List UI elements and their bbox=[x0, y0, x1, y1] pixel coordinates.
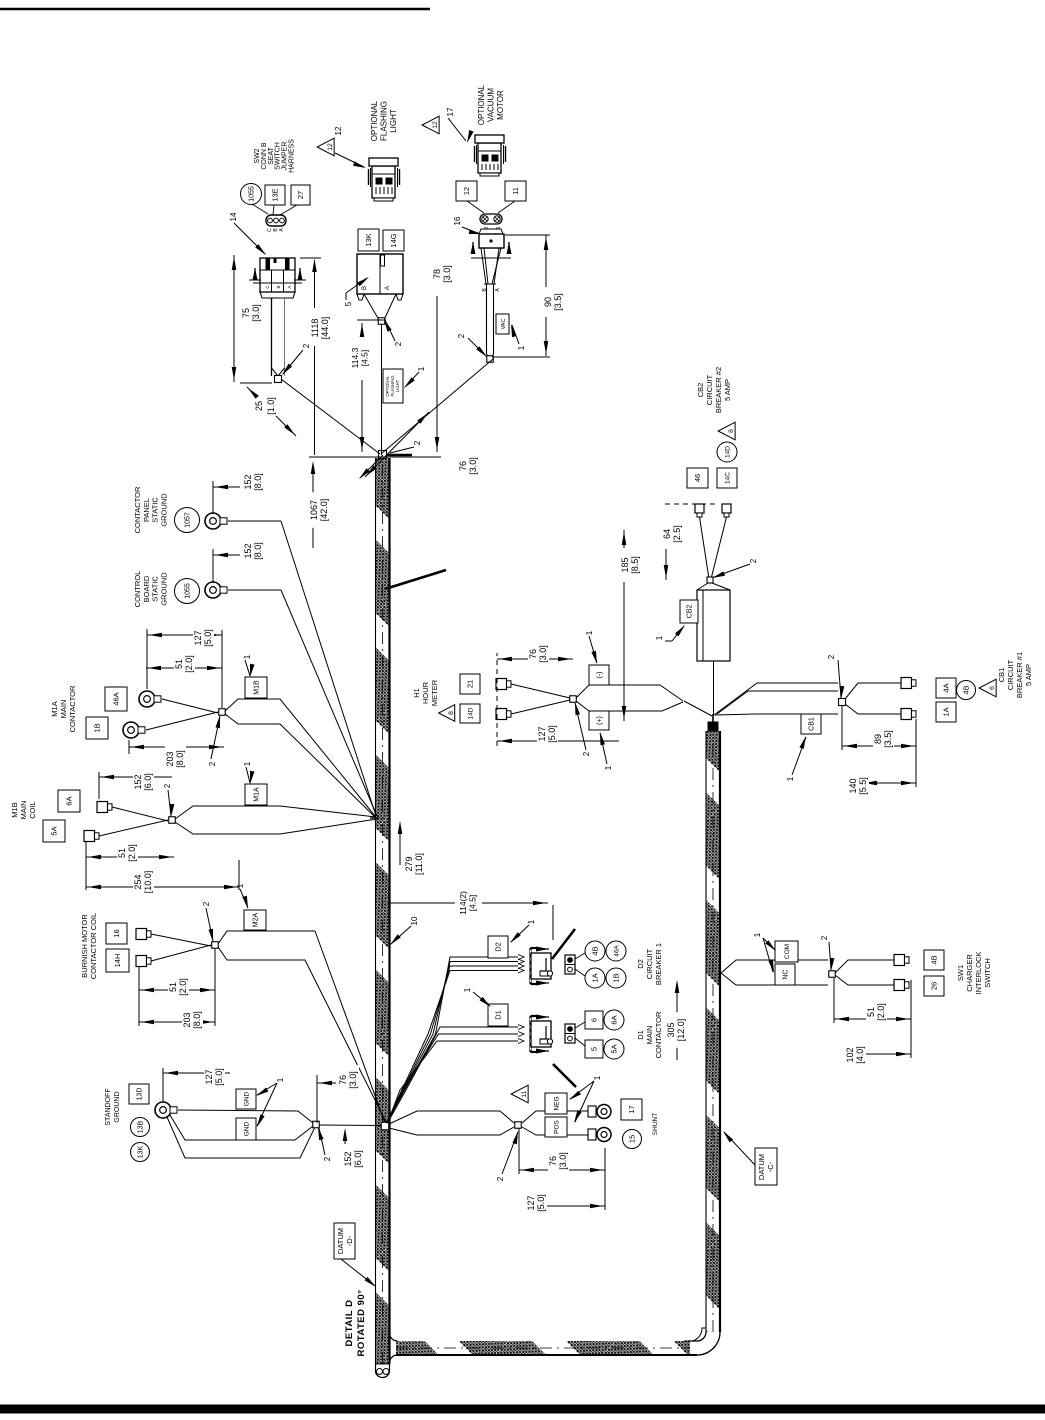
svg-text:VAC: VAC bbox=[501, 319, 507, 330]
svg-text:127: 127 bbox=[193, 630, 203, 645]
svg-text:NEG: NEG bbox=[553, 1096, 560, 1110]
extension lines M1B dims bbox=[85, 842, 87, 890]
box 1B bbox=[86, 717, 108, 739]
svg-text:CB1: CB1 bbox=[997, 668, 1006, 683]
svg-text:MAIN: MAIN bbox=[19, 801, 28, 820]
dimension 1067 [42.0] bbox=[312, 464, 314, 548]
svg-text:14C: 14C bbox=[724, 472, 731, 484]
svg-text:[12.0]: [12.0] bbox=[676, 1019, 686, 1042]
svg-text:POS: POS bbox=[553, 1119, 560, 1133]
svg-text:[3.0]: [3.0] bbox=[348, 1071, 358, 1089]
svg-text:1B: 1B bbox=[612, 973, 621, 982]
faston CB1-2 bbox=[901, 709, 912, 720]
svg-text:BOARD: BOARD bbox=[142, 575, 151, 602]
svg-text:8: 8 bbox=[728, 429, 735, 433]
wire ground node to trunk node B bbox=[319, 1124, 381, 1127]
wire contactor ground bbox=[228, 520, 281, 522]
svg-text:1: 1 bbox=[527, 919, 536, 924]
svg-text:(-): (-) bbox=[597, 672, 604, 679]
node standoff ground bbox=[313, 1121, 320, 1128]
svg-text:STATIC: STATIC bbox=[151, 497, 160, 523]
svg-text:5A: 5A bbox=[610, 1044, 619, 1053]
svg-text:CONTACTOR: CONTACTOR bbox=[133, 486, 142, 533]
svg-text:15: 15 bbox=[628, 1135, 637, 1143]
box 14G bbox=[383, 230, 404, 251]
box M2A inline bbox=[244, 910, 266, 930]
node burnish bbox=[212, 942, 219, 949]
svg-text:LIGHT: LIGHT bbox=[395, 379, 400, 392]
svg-text:[2.5]: [2.5] bbox=[672, 525, 682, 543]
dimension 127 [5.0] (hour meter) bbox=[497, 740, 619, 742]
dimension 140 [5.5] (CB1) bbox=[862, 782, 916, 784]
wires M1A crossover bbox=[162, 699, 218, 713]
dimension 152 [6.0] (M1B) bbox=[99, 776, 172, 778]
page frame lines bbox=[0, 8, 430, 11]
svg-text:89: 89 bbox=[873, 734, 883, 744]
wires M1A to trunk bbox=[225, 699, 375, 816]
housing corner tabs bbox=[357, 294, 364, 300]
node hour meter bbox=[570, 696, 577, 703]
box 21 bbox=[460, 674, 480, 694]
box 11 bbox=[505, 181, 526, 201]
svg-text:16: 16 bbox=[112, 929, 121, 937]
svg-text:DATUM: DATUM bbox=[757, 1154, 766, 1180]
svg-text:1055: 1055 bbox=[185, 583, 192, 599]
svg-text:2: 2 bbox=[208, 761, 217, 766]
svg-text:D2: D2 bbox=[636, 959, 645, 969]
dimension 76 [3.0] (shunt) bbox=[519, 1169, 605, 1171]
svg-text:CIRCUIT: CIRCUIT bbox=[645, 948, 654, 979]
box 13D bbox=[129, 1084, 149, 1104]
svg-text:78: 78 bbox=[432, 269, 442, 279]
dimension 64 [2.5] bbox=[665, 530, 667, 580]
svg-text:25: 25 bbox=[254, 401, 264, 411]
svg-text:STATIC: STATIC bbox=[151, 576, 160, 602]
svg-text:GND: GND bbox=[243, 1091, 250, 1106]
dimension 76 [3.0] diagonal bbox=[365, 412, 429, 477]
svg-text:[4.5]: [4.5] bbox=[360, 350, 370, 367]
svg-text:1067: 1067 bbox=[309, 500, 319, 520]
svg-text:16: 16 bbox=[453, 216, 462, 225]
box 12 bbox=[456, 181, 477, 201]
svg-text:90: 90 bbox=[543, 297, 553, 307]
connector vacuum 2-pin plug bbox=[480, 214, 502, 224]
extension lines CB1 dims bbox=[841, 706, 843, 750]
dimension 76 [3.0] (standoff) bbox=[316, 1075, 318, 1123]
svg-text:5A: 5A bbox=[50, 826, 59, 835]
dimension 152 [6.0] (standoff) bbox=[344, 1130, 346, 1148]
svg-text:[44.0]: [44.0] bbox=[320, 317, 330, 340]
box 13E bbox=[265, 185, 285, 205]
svg-text:D1: D1 bbox=[494, 1010, 503, 1020]
svg-text:75: 75 bbox=[241, 308, 251, 318]
box D1 inline bbox=[488, 1004, 508, 1026]
svg-text:51: 51 bbox=[117, 848, 127, 858]
connector D1 (contactor plug) bbox=[531, 1015, 553, 1054]
triangle note 12 (flashing light) bbox=[317, 138, 334, 156]
dimension 185 [8.5] bbox=[623, 582, 625, 721]
harness centerline bbox=[382, 458, 384, 1364]
svg-text:A: A bbox=[279, 228, 285, 232]
svg-text:[6.0]: [6.0] bbox=[143, 773, 153, 791]
svg-text:203: 203 bbox=[165, 751, 175, 766]
box NEG inline bbox=[545, 1093, 567, 1114]
pins taper bbox=[481, 248, 486, 284]
svg-text:[8.0]: [8.0] bbox=[175, 750, 185, 768]
svg-text:13K: 13K bbox=[138, 1145, 145, 1158]
leader 12 to plug bbox=[467, 201, 484, 213]
leader DATUM -D- to harness bbox=[341, 1259, 375, 1286]
svg-text:6: 6 bbox=[989, 686, 996, 690]
svg-text:1A: 1A bbox=[591, 973, 600, 982]
svg-text:1: 1 bbox=[585, 630, 594, 635]
svg-text:2: 2 bbox=[323, 1156, 332, 1161]
svg-text:[1.0]: [1.0] bbox=[266, 397, 276, 415]
dimension 51 [2.0] (interlock) bbox=[834, 1018, 911, 1020]
svg-text:PANEL: PANEL bbox=[142, 498, 151, 522]
dashed extension CB2 posts bbox=[665, 503, 718, 505]
connector vacuum main housing bbox=[479, 234, 504, 248]
dimension 75 [3.0] bbox=[233, 255, 235, 382]
faston M1B-1 bbox=[97, 802, 108, 813]
connector SW2 4-pin receptacle bbox=[266, 215, 286, 226]
svg-text:-D-: -D- bbox=[345, 1235, 354, 1246]
svg-text:27: 27 bbox=[296, 191, 305, 199]
box 14H bbox=[106, 949, 129, 972]
box CB1 inline bbox=[801, 714, 821, 734]
dimension 76 [3.0] (hour meter) bbox=[497, 658, 573, 660]
dimension 1118 [44.0] bbox=[314, 346, 316, 455]
svg-text:[10.0]: [10.0] bbox=[143, 871, 153, 894]
box 16 bbox=[106, 923, 127, 944]
connector D2 (breaker plug) bbox=[0, 1048, 1, 1050]
svg-text:1: 1 bbox=[243, 761, 252, 766]
faston M1B-2 bbox=[84, 831, 95, 842]
svg-text:11: 11 bbox=[521, 1090, 528, 1097]
svg-text:114(2): 114(2) bbox=[458, 891, 468, 915]
svg-text:152: 152 bbox=[243, 474, 253, 489]
leaders cells to balloons bbox=[575, 953, 585, 959]
box 5 bbox=[585, 1040, 603, 1058]
svg-text:13K: 13K bbox=[364, 233, 373, 246]
dimension 127 [5.0] (standoff) bbox=[163, 1072, 230, 1074]
node shunt bbox=[515, 1122, 522, 1129]
svg-text:1: 1 bbox=[753, 932, 762, 937]
svg-text:17: 17 bbox=[627, 1105, 636, 1113]
triangle note 8 (hour meter) bbox=[439, 705, 455, 722]
svg-text:CIRCUIT: CIRCUIT bbox=[1006, 659, 1015, 690]
faston interlock-1 bbox=[894, 955, 905, 966]
wires M1B to trunk bbox=[175, 806, 376, 819]
faston hourmeter-2 bbox=[496, 709, 507, 720]
wire CB2 to junction bbox=[713, 661, 715, 716]
svg-text:1: 1 bbox=[655, 635, 664, 640]
svg-text:152: 152 bbox=[133, 774, 143, 789]
leader DATUM -C- to trunk2 bbox=[724, 1132, 755, 1165]
svg-text:26: 26 bbox=[930, 982, 939, 990]
CB2 breaker body bbox=[697, 583, 708, 590]
shunt wires after node bbox=[522, 1111, 588, 1123]
svg-text:64: 64 bbox=[662, 529, 672, 539]
dashed extension line hour meter bbox=[496, 653, 498, 746]
dimension 279 [11.0] bbox=[399, 823, 401, 865]
svg-text:14D: 14D bbox=[467, 707, 474, 719]
svg-text:6: 6 bbox=[590, 1018, 599, 1022]
trunk 2 end cap (black) bbox=[708, 722, 718, 731]
svg-text:2: 2 bbox=[413, 440, 422, 445]
svg-text:203: 203 bbox=[182, 1012, 192, 1027]
ground wires from ring bbox=[178, 1110, 313, 1123]
svg-text:2: 2 bbox=[163, 783, 172, 788]
box 27 bbox=[291, 185, 310, 205]
box 4B (interlock) bbox=[924, 950, 944, 970]
svg-text:SW1: SW1 bbox=[956, 965, 965, 981]
svg-text:B: B bbox=[482, 288, 488, 292]
svg-text:2: 2 bbox=[202, 901, 211, 906]
svg-text:GROUND: GROUND bbox=[114, 1091, 121, 1122]
svg-text:51: 51 bbox=[866, 1007, 876, 1017]
svg-text:BREAKER #1: BREAKER #1 bbox=[1015, 652, 1024, 698]
connector flashing light 2-cav housing bbox=[357, 254, 403, 294]
dimension 203 [8.0] (burnish) bbox=[139, 1021, 215, 1023]
box 1A (CB1) bbox=[936, 702, 956, 722]
svg-text:1: 1 bbox=[276, 1077, 285, 1082]
svg-text:A: A bbox=[287, 285, 292, 288]
dimension 51 [2.0] (burnish) bbox=[139, 989, 215, 991]
wire pair SW2 bbox=[271, 298, 273, 376]
balloon 6A bbox=[604, 1010, 624, 1030]
box 26 bbox=[924, 976, 944, 996]
dimension 25 [1.0] diagonal bbox=[276, 416, 296, 436]
svg-text:4A: 4A bbox=[942, 683, 951, 692]
svg-text:51: 51 bbox=[174, 659, 184, 669]
box VAC inline bbox=[496, 314, 509, 334]
inline label box OPTIONAL FLASHING LIGHT bbox=[383, 369, 403, 403]
svg-text:2: 2 bbox=[496, 1176, 505, 1181]
svg-text:[5.0]: [5.0] bbox=[536, 1194, 546, 1212]
svg-text:1: 1 bbox=[463, 987, 472, 992]
wires charger interlock from trunk2 bbox=[721, 960, 775, 973]
D1 wire bundle bbox=[388, 1041, 519, 1123]
balloon 15 bbox=[623, 1130, 642, 1149]
connector SW2 mating face bbox=[260, 292, 295, 298]
svg-text:[5.0]: [5.0] bbox=[203, 629, 213, 647]
svg-text:1057: 1057 bbox=[185, 512, 192, 528]
svg-text:76: 76 bbox=[338, 1075, 348, 1085]
svg-text:D2: D2 bbox=[494, 942, 503, 952]
svg-text:[3.0]: [3.0] bbox=[468, 457, 478, 475]
svg-text:[8.5]: [8.5] bbox=[630, 556, 640, 574]
wire SW2 to node A bbox=[281, 379, 380, 454]
box GND 2 bbox=[236, 1118, 256, 1140]
box M1A inline bbox=[245, 784, 267, 805]
svg-text:127: 127 bbox=[204, 1069, 214, 1084]
ring terminal contactor panel ground bbox=[205, 513, 221, 529]
box 5A bbox=[43, 820, 65, 842]
svg-text:MAIN: MAIN bbox=[645, 1026, 654, 1045]
svg-text:-C-: -C- bbox=[766, 1161, 775, 1172]
box 6 bbox=[585, 1011, 603, 1029]
tick at connector seal bbox=[253, 282, 302, 284]
main harness trunk (hatched band) bbox=[376, 458, 390, 1364]
ring terminal control board ground bbox=[205, 582, 221, 598]
svg-text:[6.0]: [6.0] bbox=[353, 1150, 363, 1168]
box POS inline bbox=[545, 1117, 567, 1137]
svg-text:114.3: 114.3 bbox=[350, 347, 360, 368]
trunk 2 junction node bbox=[712, 714, 714, 722]
node M1A bbox=[219, 709, 226, 716]
svg-text:[5.5]: [5.5] bbox=[858, 777, 868, 795]
dimension 127 [5.0] (shunt) bbox=[545, 1205, 605, 1207]
terminal cells D2 bbox=[565, 955, 575, 974]
svg-text:[8.0]: [8.0] bbox=[192, 1011, 202, 1029]
faston interlock-2 bbox=[894, 980, 905, 991]
svg-text:HARNESS: HARNESS bbox=[289, 139, 296, 173]
node flashing-light stem bbox=[378, 318, 385, 325]
shunt lug 2 bbox=[588, 1129, 596, 1140]
node B square bbox=[381, 1122, 389, 1130]
node A extension line bbox=[309, 456, 441, 458]
svg-text:(+): (+) bbox=[597, 716, 604, 725]
svg-text:C: C bbox=[265, 285, 270, 289]
svg-text:[5.0]: [5.0] bbox=[214, 1068, 224, 1086]
balloon 4B (CB1) bbox=[957, 681, 976, 700]
dimension 305 [12.0] bbox=[676, 982, 678, 1060]
svg-text:CONTACTOR: CONTACTOR bbox=[654, 1011, 663, 1058]
wire pair vacuum stem bbox=[486, 284, 488, 354]
balloon 1055 (control board) bbox=[175, 579, 200, 604]
dimension 114(2) [4.5] bbox=[388, 902, 455, 904]
svg-text:14G: 14G bbox=[389, 233, 398, 247]
svg-text:1055: 1055 bbox=[249, 186, 256, 202]
svg-text:8: 8 bbox=[448, 711, 455, 715]
taper to stem bbox=[364, 294, 379, 320]
break mark on trunk near node C bbox=[385, 570, 446, 589]
extension lines burnish dims bbox=[138, 966, 140, 1026]
svg-text:GROUND: GROUND bbox=[159, 572, 168, 606]
svg-text:A: A bbox=[495, 288, 501, 292]
box 17 bbox=[621, 1099, 642, 1120]
leader arrow below node A bbox=[360, 455, 383, 478]
svg-text:152: 152 bbox=[243, 543, 253, 558]
svg-text:CHARGER: CHARGER bbox=[965, 954, 974, 992]
balloon 14D (CB2) bbox=[717, 442, 737, 462]
dimension 254 [10.0] (M1B) bbox=[86, 886, 239, 888]
tick at vacuum seal bbox=[471, 257, 511, 259]
svg-text:[3.0]: [3.0] bbox=[251, 304, 261, 322]
box M1B inline bbox=[245, 677, 267, 698]
dimension 89 [3.5] (CB1) bbox=[842, 745, 916, 747]
svg-text:[3.0]: [3.0] bbox=[442, 265, 452, 283]
box D2 inline bbox=[488, 936, 508, 958]
svg-text:127: 127 bbox=[537, 726, 547, 741]
ring terminal M1A-1 bbox=[139, 691, 155, 707]
faston CB1-1 bbox=[901, 678, 912, 689]
svg-text:2: 2 bbox=[394, 341, 403, 346]
wires burnish crossover bbox=[151, 934, 211, 946]
svg-text:1B: 1B bbox=[93, 723, 102, 732]
svg-text:OPTIONAL: OPTIONAL bbox=[370, 100, 379, 141]
svg-text:4B: 4B bbox=[962, 685, 971, 694]
svg-text:1118: 1118 bbox=[310, 319, 320, 338]
svg-text:M1A: M1A bbox=[50, 701, 59, 716]
faston burnish-2 bbox=[136, 956, 147, 967]
svg-text:5 AMP: 5 AMP bbox=[1024, 664, 1033, 686]
dimension 51 [2.0] (M1B) bbox=[86, 856, 174, 858]
svg-text:[2.0]: [2.0] bbox=[184, 655, 194, 673]
node A thick tick bbox=[387, 454, 412, 457]
dimension 51 [2.0] (M1A) bbox=[146, 667, 222, 669]
svg-text:4B: 4B bbox=[930, 955, 939, 964]
svg-text:46A: 46A bbox=[613, 945, 620, 957]
dimension 102 [4.0] (interlock) bbox=[858, 1053, 911, 1055]
wires M1B crossover bbox=[112, 807, 168, 821]
svg-text:13E: 13E bbox=[271, 188, 280, 201]
svg-text:CONTROL: CONTROL bbox=[133, 571, 142, 608]
svg-text:D1: D1 bbox=[636, 1030, 645, 1040]
box 46 bbox=[687, 468, 708, 488]
leader 1055 to receptacle bbox=[252, 204, 268, 214]
svg-text:102: 102 bbox=[845, 1047, 855, 1062]
dimension 203 [8.0] (M1A) bbox=[129, 746, 224, 748]
extension line D2 level bbox=[552, 905, 554, 940]
triangle note 6 (CB1) bbox=[979, 679, 996, 697]
svg-text:140: 140 bbox=[848, 778, 858, 793]
leader 11 to plug bbox=[498, 201, 515, 213]
dimension 78 [3.0] bbox=[436, 296, 438, 452]
terminal post CB2-2 bbox=[722, 504, 731, 513]
balloon 13K bbox=[131, 1143, 150, 1162]
box COM inline bbox=[775, 941, 798, 962]
leaders cells D1 to labels bbox=[575, 1022, 585, 1028]
svg-text:METER: METER bbox=[430, 679, 439, 706]
svg-text:13B: 13B bbox=[138, 1120, 145, 1133]
svg-text:254: 254 bbox=[133, 874, 143, 889]
svg-text:LIGHT: LIGHT bbox=[389, 109, 398, 133]
terminal cells D1 bbox=[565, 1024, 575, 1043]
svg-text:[4.5]: [4.5] bbox=[468, 895, 478, 912]
wires hour meter to boxes bbox=[576, 685, 683, 701]
label box DATUM -D- bbox=[334, 1223, 355, 1259]
svg-text:2: 2 bbox=[457, 333, 466, 338]
svg-text:COM: COM bbox=[784, 944, 791, 959]
svg-text:ROTATED 90°: ROTATED 90° bbox=[356, 1289, 367, 1356]
svg-text:[8.0]: [8.0] bbox=[253, 473, 263, 491]
leader triangle 12 to lamp connector bbox=[335, 153, 364, 167]
box 13K bbox=[358, 229, 379, 251]
svg-text:14D: 14D bbox=[724, 446, 731, 458]
svg-text:COIL: COIL bbox=[28, 801, 37, 819]
svg-text:M2A: M2A bbox=[253, 912, 260, 927]
svg-text:2: 2 bbox=[820, 935, 829, 940]
svg-text:[4.0]: [4.0] bbox=[855, 1046, 865, 1064]
svg-text:DATUM: DATUM bbox=[336, 1228, 345, 1254]
box 46A bbox=[105, 687, 127, 711]
triangle note 8 (CB2) bbox=[718, 422, 735, 440]
node A square bbox=[379, 451, 387, 459]
break mark at D2 bbox=[552, 929, 575, 959]
svg-text:185: 185 bbox=[620, 557, 630, 572]
wire control board ground bbox=[228, 589, 281, 591]
svg-text:FLASHING: FLASHING bbox=[380, 101, 389, 141]
dimension 90 [3.5] bbox=[545, 315, 547, 356]
dimension 152 [8.0] (control gnd) bbox=[212, 549, 214, 583]
balloon 1055 (seat harness) bbox=[241, 184, 262, 205]
connector flashing light lamp housing bbox=[372, 166, 395, 198]
svg-text:6A: 6A bbox=[610, 1015, 619, 1024]
triangle note 12 (vacuum motor) bbox=[422, 116, 439, 134]
wires CB1 to fastons bbox=[845, 683, 901, 699]
